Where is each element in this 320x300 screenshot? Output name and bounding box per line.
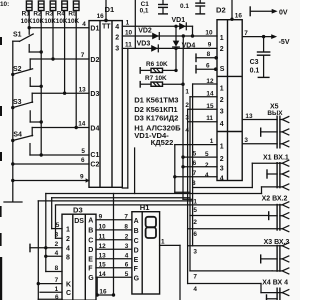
D2 pin16 power wire xyxy=(230,0,242,21)
svg-text:0V: 0V xyxy=(279,9,288,16)
svg-text:R3: R3 xyxy=(45,11,54,18)
long wire L3 xyxy=(38,200,192,202)
svg-text:2: 2 xyxy=(185,102,189,109)
svg-text:K: K xyxy=(66,282,71,289)
svg-text:5: 5 xyxy=(56,222,60,229)
svg-text:0.1: 0.1 xyxy=(180,3,189,10)
svg-text:2: 2 xyxy=(220,97,224,104)
svg-text:A: A xyxy=(134,218,139,225)
svg-text:4: 4 xyxy=(115,24,119,31)
svg-text:13: 13 xyxy=(99,252,107,259)
svg-text:R6 10K: R6 10K xyxy=(146,61,168,68)
D2 pin11 wire xyxy=(188,115,224,128)
bus vertical wires xyxy=(188,84,193,284)
svg-text:4: 4 xyxy=(185,127,189,134)
svg-text:1: 1 xyxy=(210,138,214,145)
D2 pin1 wire xyxy=(175,138,224,192)
svg-text:14: 14 xyxy=(78,121,86,128)
svg-text:12: 12 xyxy=(206,78,214,85)
D3 pin6 wire xyxy=(38,294,62,300)
page edge artifacts xyxy=(0,1,9,300)
vertical wire pin11 branch down xyxy=(122,48,128,188)
svg-text:D: D xyxy=(88,247,93,254)
svg-text:7: 7 xyxy=(81,52,85,59)
svg-text:ВЫХ: ВЫХ xyxy=(267,110,283,117)
svg-text:10K: 10K xyxy=(21,18,33,25)
D3 pin7 wire xyxy=(37,277,71,289)
D3 to H1 segment wires xyxy=(96,220,132,277)
connector X2 input xyxy=(188,196,289,232)
H1 segment letters xyxy=(134,218,140,282)
svg-text:R4: R4 xyxy=(57,11,66,18)
0V terminal arrow xyxy=(250,6,288,16)
svg-text:2: 2 xyxy=(125,233,129,240)
svg-text:16: 16 xyxy=(235,12,243,19)
svg-text:3: 3 xyxy=(220,165,224,172)
resistor R4 xyxy=(56,1,68,93)
connector X1 input xyxy=(252,155,289,190)
svg-text:5: 5 xyxy=(81,148,85,155)
svg-text:КД522: КД522 xyxy=(151,138,174,147)
wire from pin10 down xyxy=(182,36,184,84)
svg-text:F: F xyxy=(88,266,93,273)
svg-text:1: 1 xyxy=(220,86,224,93)
-5V rail arrow with pin7 xyxy=(242,30,290,46)
resistor R1 xyxy=(21,1,33,34)
svg-text:5: 5 xyxy=(193,207,197,214)
wire pin7 D1 input xyxy=(30,52,89,69)
D2 pin5 wire xyxy=(181,150,224,162)
svg-text:C: C xyxy=(88,238,93,245)
D3 pin3 wire xyxy=(55,232,70,244)
wire mid vertical to L1 xyxy=(134,148,136,194)
svg-text:10K: 10K xyxy=(44,18,56,25)
D2 pin6 select wire xyxy=(196,62,218,73)
diode VD2 xyxy=(138,27,159,39)
svg-text:1: 1 xyxy=(126,20,130,27)
left common bus xyxy=(4,41,22,202)
svg-text:3: 3 xyxy=(185,114,189,121)
D1 output wire pin1 xyxy=(122,20,192,28)
svg-text:2: 2 xyxy=(193,219,197,226)
svg-text:C: C xyxy=(66,290,71,297)
svg-text:14: 14 xyxy=(99,271,107,278)
svg-text:7: 7 xyxy=(244,30,248,37)
svg-text:R7 10K: R7 10K xyxy=(145,75,167,82)
long wire L1 to X1 lower xyxy=(46,187,262,194)
H1 pin number labels xyxy=(124,213,128,277)
svg-text:D1 К561ТМ3: D1 К561ТМ3 xyxy=(134,96,178,105)
svg-text:DS: DS xyxy=(74,218,84,225)
svg-text:D2: D2 xyxy=(216,5,226,14)
D1 output wire pin10 xyxy=(122,30,217,38)
svg-text:16: 16 xyxy=(99,289,107,296)
svg-text:1: 1 xyxy=(220,143,224,150)
resistor R5 xyxy=(67,1,79,128)
svg-text:S1: S1 xyxy=(13,31,22,38)
long wire L2 to X2 top xyxy=(52,197,190,199)
long wire L4 over D3 xyxy=(56,204,188,206)
svg-text:11: 11 xyxy=(99,233,106,240)
svg-text:Х2 ВХ.2: Х2 ВХ.2 xyxy=(262,196,288,203)
svg-text:4: 4 xyxy=(193,286,197,293)
svg-text:R5: R5 xyxy=(68,11,77,18)
svg-text:A: A xyxy=(88,218,93,225)
svg-text:Х1 ВХ.1: Х1 ВХ.1 xyxy=(263,155,289,162)
svg-text:6: 6 xyxy=(193,231,197,238)
svg-text:14: 14 xyxy=(206,90,214,97)
capacitor C1 xyxy=(140,0,168,14)
D1 output column labels xyxy=(115,24,119,52)
wire X1 top feed xyxy=(192,163,252,187)
svg-text:9: 9 xyxy=(80,174,84,181)
svg-text:E: E xyxy=(88,257,93,264)
resistor R3 xyxy=(44,1,56,59)
svg-text:R1: R1 xyxy=(22,11,31,18)
left corner verticals to D3 inputs xyxy=(38,194,55,300)
wire pin6 C2 input xyxy=(11,157,89,166)
D2 output pin3 wire xyxy=(242,137,277,144)
switch S1 xyxy=(13,31,43,53)
svg-text:8: 8 xyxy=(66,254,70,261)
svg-text:1: 1 xyxy=(161,239,165,246)
svg-text:11: 11 xyxy=(125,41,132,48)
svg-text:D: D xyxy=(134,247,139,254)
svg-text:C2: C2 xyxy=(90,162,99,169)
connector X3 input xyxy=(188,239,290,274)
svg-text:E: E xyxy=(134,257,139,264)
svg-text:D4: D4 xyxy=(90,125,99,132)
svg-text:2: 2 xyxy=(205,162,209,169)
svg-text:B: B xyxy=(88,228,93,235)
svg-text:1: 1 xyxy=(185,89,189,96)
D3 pin2 wire with stub terminal xyxy=(30,241,70,252)
svg-text:6: 6 xyxy=(81,157,85,164)
svg-text:1: 1 xyxy=(55,286,59,293)
svg-text:4: 4 xyxy=(66,246,70,253)
chip D2 K561KP1 box xyxy=(216,5,242,180)
diode VD4 xyxy=(173,26,196,70)
svg-text:D3: D3 xyxy=(90,91,99,98)
display H1 box xyxy=(132,203,160,294)
svg-text:6: 6 xyxy=(193,160,197,167)
vertical wire to D3 pin16 xyxy=(113,194,115,296)
diode VD3 xyxy=(137,41,159,52)
svg-text:D2: D2 xyxy=(90,57,99,64)
svg-text:12: 12 xyxy=(99,243,107,250)
seven segment digit xyxy=(146,217,156,238)
svg-text:3: 3 xyxy=(125,243,129,250)
svg-text:6: 6 xyxy=(206,62,210,69)
D2 pin8 strobe wire xyxy=(196,51,218,62)
connector X4 input xyxy=(261,279,289,300)
svg-text:2: 2 xyxy=(115,34,119,41)
wire pin9 clock input xyxy=(11,174,89,183)
D2 mux section1 input labels xyxy=(220,35,225,73)
svg-text:5: 5 xyxy=(193,150,197,157)
svg-text:C: C xyxy=(134,238,139,245)
svg-text:VD3: VD3 xyxy=(137,41,151,48)
vertical wire mid xyxy=(134,0,136,48)
wire pin14 D1 input xyxy=(32,121,89,136)
svg-text:10: 10 xyxy=(205,29,213,36)
svg-text:10K: 10K xyxy=(67,18,79,25)
svg-text:4: 4 xyxy=(220,175,224,182)
wire R7 node down to bus xyxy=(183,84,193,199)
svg-text:D3 К176ИД2: D3 К176ИД2 xyxy=(134,113,178,122)
H1 pin1 wire xyxy=(160,239,180,300)
svg-text:G: G xyxy=(88,275,94,282)
op chip D1 K561TM3 box xyxy=(89,5,122,187)
svg-text:3: 3 xyxy=(244,137,248,144)
X2 bottom feed wire xyxy=(188,219,283,229)
chip D3 K176ID2 box xyxy=(62,205,96,300)
resistor R6 xyxy=(140,61,178,74)
svg-text:2: 2 xyxy=(220,156,224,163)
D1 pin16 power wire xyxy=(97,0,108,22)
svg-text:8: 8 xyxy=(192,180,196,187)
X4 top feed wire xyxy=(188,284,261,294)
svg-text:VD2: VD2 xyxy=(138,27,152,34)
svg-text:10:: 10: xyxy=(0,1,9,8)
svg-text:Х4 ВХ 4: Х4 ВХ 4 xyxy=(262,279,288,286)
D3 pin5 wire xyxy=(52,222,70,233)
svg-text:10K: 10K xyxy=(32,18,44,25)
svg-text:-5V: -5V xyxy=(279,39,290,46)
svg-text:7: 7 xyxy=(55,277,59,284)
D3 pin4 wire xyxy=(44,250,70,262)
svg-text:1: 1 xyxy=(220,35,224,42)
svg-text:9: 9 xyxy=(99,213,103,220)
svg-text:15: 15 xyxy=(99,261,107,268)
capacitor C3 xyxy=(250,37,271,78)
svg-text:0,1: 0,1 xyxy=(140,7,149,14)
svg-text:3: 3 xyxy=(55,232,59,239)
parts list text block xyxy=(134,96,181,148)
svg-text:2: 2 xyxy=(55,241,59,248)
wire pin5 C1 input xyxy=(30,148,89,157)
D2 pin14 wire xyxy=(190,90,224,103)
svg-text:G: G xyxy=(134,275,140,282)
svg-text:D3: D3 xyxy=(73,205,83,214)
svg-text:D1: D1 xyxy=(90,26,99,33)
D3 segment output letters xyxy=(88,218,94,282)
svg-text:4: 4 xyxy=(125,252,129,259)
D2 output pin13 wire xyxy=(242,113,277,120)
D2 pin4 wire xyxy=(173,170,224,182)
connector X5 output xyxy=(261,103,289,148)
svg-text:8: 8 xyxy=(124,224,128,231)
svg-text:6: 6 xyxy=(125,261,129,268)
D3 right pin number labels xyxy=(99,213,107,277)
svg-text:3: 3 xyxy=(193,249,197,256)
svg-text:3: 3 xyxy=(220,109,224,116)
svg-text:10K: 10K xyxy=(56,18,68,25)
svg-text:10: 10 xyxy=(125,30,133,37)
svg-text:4: 4 xyxy=(205,172,209,179)
svg-text:16: 16 xyxy=(97,13,105,20)
svg-text:B: B xyxy=(134,228,139,235)
switch S3 xyxy=(11,99,43,124)
switch S2 xyxy=(11,66,43,88)
X2 shield feed wire xyxy=(190,198,269,215)
resistor R2 xyxy=(32,1,44,155)
svg-text:2: 2 xyxy=(220,46,224,53)
svg-text:5: 5 xyxy=(125,271,129,278)
D1 output wire pin11 xyxy=(122,41,217,50)
svg-text:VD1: VD1 xyxy=(172,17,186,24)
svg-text:4: 4 xyxy=(55,250,59,257)
D2 pin2 wire xyxy=(181,160,224,172)
svg-text:C3: C3 xyxy=(250,59,259,66)
svg-text:10: 10 xyxy=(99,224,107,231)
svg-text:F: F xyxy=(134,266,139,273)
svg-text:7: 7 xyxy=(193,170,197,177)
capacitor C2 xyxy=(180,0,205,14)
svg-text:1: 1 xyxy=(193,198,197,205)
svg-text:3: 3 xyxy=(115,46,119,53)
D2 pin15 wire xyxy=(188,103,224,116)
svg-text:7: 7 xyxy=(193,273,197,280)
svg-text:15: 15 xyxy=(206,103,214,110)
svg-text:R2: R2 xyxy=(33,11,42,18)
switch S4 xyxy=(11,132,32,155)
diode VD1 xyxy=(172,17,193,36)
D3 pin16 bottom wire xyxy=(96,277,116,296)
D1 input labels xyxy=(90,26,99,169)
svg-text:H1: H1 xyxy=(140,203,150,212)
svg-text:13: 13 xyxy=(79,86,87,93)
svg-text:8: 8 xyxy=(55,265,59,272)
svg-text:8: 8 xyxy=(207,51,211,58)
svg-text:9: 9 xyxy=(208,42,212,49)
D3 pin8 wire xyxy=(46,265,62,272)
svg-text:1: 1 xyxy=(66,226,70,233)
svg-text:7: 7 xyxy=(124,213,128,220)
svg-text:6: 6 xyxy=(55,294,59,300)
svg-text:11: 11 xyxy=(206,115,213,122)
svg-text:S4: S4 xyxy=(13,132,22,139)
svg-text:13: 13 xyxy=(245,113,253,120)
svg-text:5: 5 xyxy=(205,151,209,158)
D3 pin1 wire xyxy=(40,286,71,297)
svg-text:0.1: 0.1 xyxy=(250,67,260,74)
X3 bottom feed wire xyxy=(190,271,272,281)
svg-text:4: 4 xyxy=(220,121,224,128)
resistor R7 xyxy=(140,75,185,88)
svg-text:2: 2 xyxy=(66,236,70,243)
wire pin4 D1 input xyxy=(28,21,90,29)
svg-text:4: 4 xyxy=(82,21,86,28)
wire pin13 D1 input xyxy=(32,86,89,102)
D2 pin12 wire xyxy=(193,78,224,93)
bus wire number labels xyxy=(185,89,189,134)
svg-text:C1: C1 xyxy=(90,152,99,159)
svg-text:TT: TT xyxy=(102,24,111,31)
svg-text:S: S xyxy=(220,66,225,73)
